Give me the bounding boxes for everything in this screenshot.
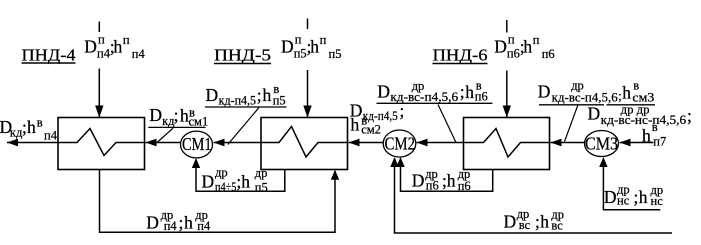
svg-text:вс: вс bbox=[519, 218, 531, 232]
svg-text:h: h bbox=[27, 117, 36, 137]
svg-text:п5: п5 bbox=[329, 47, 342, 61]
drain wire НС to СМ3 bbox=[599, 157, 660, 210]
svg-text:;: ; bbox=[687, 106, 692, 126]
svg-text:D: D bbox=[538, 82, 551, 102]
svg-text:;: ; bbox=[460, 82, 465, 102]
leader СМ3 outlet label bbox=[565, 105, 578, 141]
heating coil zigzag ПНД-4 bbox=[58, 129, 145, 156]
svg-text:h: h bbox=[639, 187, 648, 207]
svg-text:др: др bbox=[255, 166, 268, 180]
steam feed wire stub ПНД-6 bbox=[506, 20, 508, 33]
svg-text:D: D bbox=[146, 213, 159, 233]
leader ПНД-5 inlet label bbox=[228, 108, 259, 145]
svg-text:др: др bbox=[215, 166, 228, 180]
svg-text:п6: п6 bbox=[458, 179, 471, 193]
svg-text:кд: кд bbox=[10, 126, 23, 140]
svg-text:др: др bbox=[571, 78, 584, 92]
drain wire ВС to СМ2 bbox=[390, 157, 672, 233]
svg-text:п5: п5 bbox=[294, 46, 307, 60]
drain wire ПНД-4 to ПНД-5 bbox=[100, 170, 340, 233]
svg-text:п: п bbox=[123, 33, 130, 47]
svg-text:п: п bbox=[295, 33, 302, 47]
svg-text:D: D bbox=[206, 85, 219, 105]
label D_кд-вс-нс-п4,5,6 bbox=[588, 103, 692, 128]
svg-text:кд-п4,5: кд-п4,5 bbox=[219, 93, 257, 107]
svg-text:кд-вс-п4,5,6: кд-вс-п4,5,6 bbox=[552, 90, 618, 104]
svg-text:нс: нс bbox=[651, 194, 664, 208]
label D_кд-п4,5;h_см2 bbox=[350, 100, 405, 136]
svg-text:D: D bbox=[149, 105, 162, 125]
svg-text:п6: п6 bbox=[542, 47, 555, 61]
mixer СМ1 circle bbox=[181, 131, 213, 158]
label D_п4;h_п4 drain bbox=[146, 208, 211, 233]
svg-text:D: D bbox=[504, 212, 517, 232]
svg-text:D: D bbox=[202, 171, 215, 191]
svg-text:D: D bbox=[84, 36, 97, 56]
svg-text:СМ2: СМ2 bbox=[385, 133, 416, 153]
svg-text:D: D bbox=[604, 187, 617, 207]
label D_п4;h_п4 steam ПНД-4 bbox=[84, 33, 145, 61]
svg-text:D: D bbox=[588, 104, 601, 124]
svg-text:;: ; bbox=[535, 212, 540, 232]
wire ПНД-5 to СМ1 bbox=[214, 139, 262, 147]
svg-text:h: h bbox=[310, 36, 319, 56]
svg-text:ПНД-6: ПНД-6 bbox=[433, 46, 488, 65]
heater ПНД-6 box bbox=[464, 118, 550, 170]
svg-text:D: D bbox=[494, 36, 507, 56]
svg-text:h: h bbox=[114, 36, 123, 56]
label ПНД-5 bbox=[214, 46, 271, 65]
label D_п6;h_п6 drain bbox=[412, 167, 471, 193]
svg-text:п: п bbox=[533, 33, 540, 47]
steam feed wire stub ПНД-5 bbox=[307, 19, 309, 30]
svg-text:см1: см1 bbox=[189, 115, 209, 129]
svg-text:h: h bbox=[465, 82, 474, 102]
label D_п5;h_п5 steam ПНД-5 bbox=[281, 33, 341, 61]
label D_вс;h_вс drain bbox=[504, 207, 565, 232]
svg-text:h: h bbox=[622, 83, 631, 103]
leader СМ1 outlet label bbox=[157, 128, 173, 142]
svg-text:h: h bbox=[351, 114, 360, 134]
mixer СМ3 circle bbox=[585, 131, 619, 157]
steam feed wire stub ПНД-4 bbox=[98, 22, 100, 33]
steam feed arrow ПНД-4 bbox=[95, 69, 103, 118]
svg-text:п4÷5: п4÷5 bbox=[215, 180, 236, 194]
label h_п7 inlet bbox=[642, 120, 666, 149]
svg-text:п5: п5 bbox=[273, 94, 286, 108]
svg-text:;: ; bbox=[179, 213, 184, 233]
label D_п6;h_п6 steam ПНД-6 bbox=[494, 33, 554, 61]
wire СМ1 to ПНД-4 bbox=[146, 139, 181, 147]
svg-text:СМ1: СМ1 bbox=[182, 134, 212, 154]
steam feed arrow ПНД-6 bbox=[503, 71, 511, 118]
svg-text:h: h bbox=[642, 126, 651, 146]
svg-text:h: h bbox=[523, 36, 532, 56]
svg-text:D: D bbox=[377, 82, 390, 102]
svg-text:h: h bbox=[184, 213, 193, 233]
wire condensate inlet to СМ3 bbox=[620, 139, 654, 147]
svg-text:нс: нс bbox=[617, 194, 630, 208]
drain wire ПНД-5 to СМ1 bbox=[192, 158, 285, 191]
svg-text:п4: п4 bbox=[164, 219, 178, 233]
heater ПНД-4 box bbox=[58, 118, 145, 170]
svg-text:h: h bbox=[540, 212, 549, 232]
svg-text:п5: п5 bbox=[255, 181, 268, 195]
svg-text:СМ3: СМ3 bbox=[585, 133, 618, 153]
heater ПНД-5 box bbox=[261, 118, 348, 170]
svg-text:п4: п4 bbox=[132, 47, 146, 61]
mixer СМ2 circle bbox=[383, 130, 416, 157]
svg-text:ПНД-4: ПНД-4 bbox=[22, 46, 76, 65]
label D_кд;h_см1 bbox=[148, 105, 208, 128]
label D_кд-вс-п4,5,6;h_п6 bbox=[377, 78, 493, 104]
svg-text:h: h bbox=[241, 171, 250, 191]
svg-text:ПНД-5: ПНД-5 bbox=[214, 46, 271, 65]
svg-text:;: ; bbox=[174, 105, 179, 125]
svg-text:п4: п4 bbox=[97, 46, 111, 60]
svg-text:п4: п4 bbox=[44, 128, 58, 142]
svg-text:h: h bbox=[263, 85, 272, 105]
label D_нс;h_нс drain bbox=[604, 183, 663, 208]
label ПНД-4 bbox=[22, 46, 76, 65]
wire СМ2 to ПНД-5 bbox=[349, 139, 384, 147]
drain wire ПНД-6 to СМ2 bbox=[396, 157, 492, 191]
svg-text:др: др bbox=[412, 79, 425, 93]
heating coil zigzag ПНД-5 bbox=[261, 127, 348, 158]
svg-text:п: п bbox=[508, 33, 515, 47]
wire СМ3 to ПНД-6 bbox=[551, 139, 585, 147]
label D_кд;h_п4 outlet bbox=[0, 115, 58, 142]
svg-text:;: ; bbox=[634, 187, 639, 207]
svg-text:D: D bbox=[412, 170, 425, 190]
svg-text:п: п bbox=[98, 33, 105, 47]
svg-text:п4: п4 bbox=[197, 219, 211, 233]
mixer СМ2 label bbox=[385, 133, 416, 153]
svg-text:h: h bbox=[447, 170, 456, 190]
svg-text:др др: др др bbox=[621, 103, 650, 117]
svg-text:п6: п6 bbox=[507, 46, 520, 60]
svg-text:D: D bbox=[281, 36, 294, 56]
heating coil zigzag ПНД-6 bbox=[464, 129, 550, 158]
svg-text:в: в bbox=[652, 120, 658, 134]
label ПНД-6 bbox=[433, 46, 488, 65]
wire condensate outlet arrow bbox=[7, 139, 58, 147]
svg-text:п: п bbox=[320, 33, 327, 47]
svg-text:;: ; bbox=[400, 100, 405, 120]
svg-text:п7: п7 bbox=[653, 135, 666, 149]
svg-text:вс: вс bbox=[551, 218, 563, 232]
wire ПНД-6 to СМ2 bbox=[417, 139, 464, 147]
mixer СМ1 label bbox=[182, 134, 212, 154]
svg-text:см2: см2 bbox=[361, 123, 381, 137]
mixer СМ3 label bbox=[585, 133, 618, 153]
label D_п4-5;h_п5 drain bbox=[202, 166, 268, 195]
svg-text:в: в bbox=[37, 115, 43, 129]
label D_кд-вс-п4,5,6;h_см3 bbox=[538, 78, 655, 105]
leader ПНД-6 inlet label bbox=[438, 105, 456, 143]
svg-text:п6: п6 bbox=[475, 90, 488, 104]
svg-text:;: ; bbox=[257, 85, 262, 105]
steam feed arrow ПНД-5 bbox=[303, 70, 311, 118]
label D_кд-п4,5;h_п5 bbox=[205, 82, 287, 107]
svg-text:кд-п4,5: кд-п4,5 bbox=[363, 109, 398, 123]
svg-text:п6: п6 bbox=[426, 178, 439, 192]
